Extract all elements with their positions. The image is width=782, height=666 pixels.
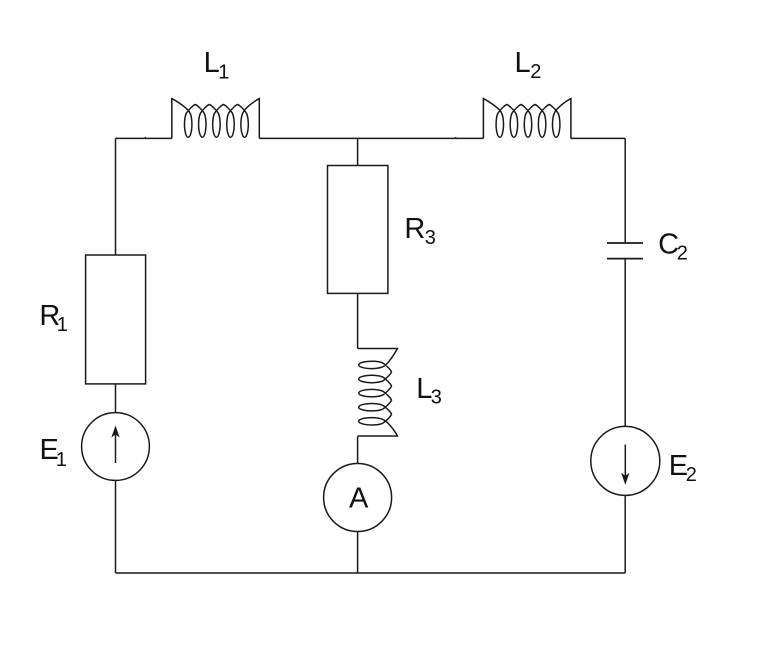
svg-text:1: 1: [218, 61, 229, 83]
svg-text:2: 2: [686, 464, 697, 486]
svg-text:3: 3: [425, 227, 436, 249]
svg-text:1: 1: [56, 449, 67, 471]
svg-text:R: R: [404, 213, 425, 245]
svg-text:A: A: [349, 482, 369, 514]
svg-text:L: L: [515, 47, 531, 79]
svg-text:2: 2: [677, 242, 688, 264]
svg-text:3: 3: [431, 386, 442, 408]
svg-text:2: 2: [530, 61, 541, 83]
svg-text:1: 1: [57, 314, 68, 336]
